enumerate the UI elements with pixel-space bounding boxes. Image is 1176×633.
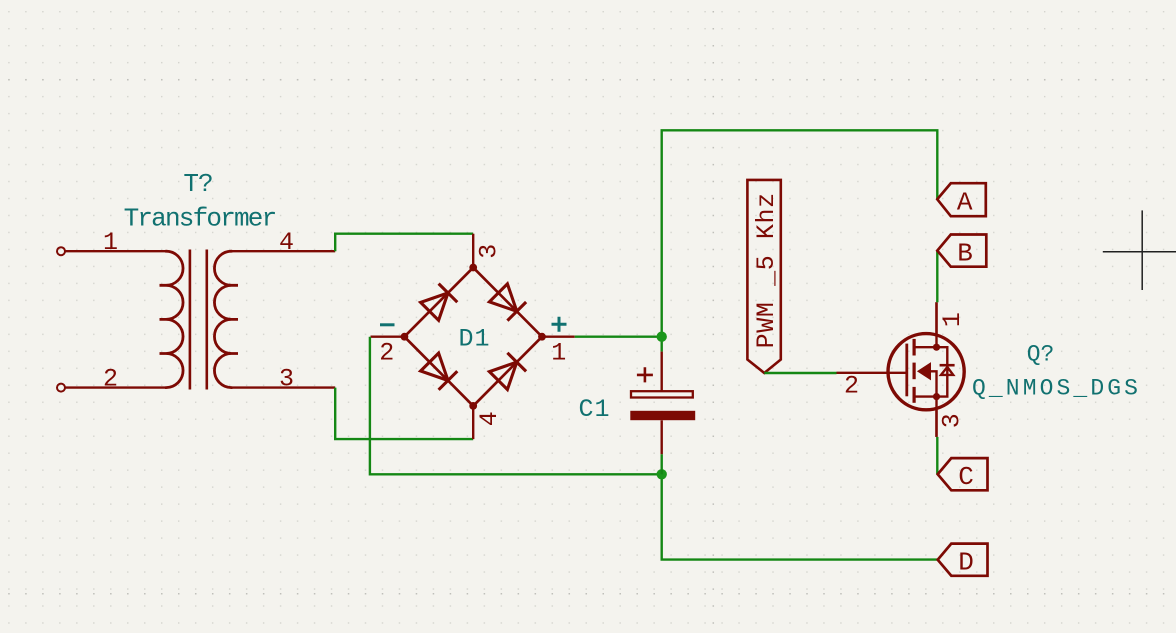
mosfet Q? body diode path — [937, 347, 948, 396]
global label PWM _5 Khz text — [752, 192, 781, 348]
svg-text:D: D — [958, 548, 974, 578]
capacitor C1 bottom plate — [630, 411, 695, 420]
svg-text:3: 3 — [279, 365, 294, 394]
bridge pin 1 stub right — [542, 336, 575, 338]
mosfet Q? drain connection — [914, 302, 936, 347]
svg-text:3: 3 — [937, 413, 966, 428]
mosfet Q? source dot — [933, 393, 940, 400]
svg-text:PWM _5 Khz: PWM _5 Khz — [752, 192, 781, 348]
svg-text:C1: C1 — [578, 395, 610, 424]
transformer T? primary winding — [160, 251, 184, 387]
svg-text:1: 1 — [103, 228, 118, 257]
mosfet Q? gate pin line — [837, 372, 906, 374]
svg-text:2: 2 — [103, 365, 118, 394]
svg-text:Transformer: Transformer — [124, 204, 276, 234]
svg-text:T?: T? — [183, 169, 212, 199]
mosfet drain pin line — [935, 302, 937, 333]
transformer core — [190, 250, 207, 390]
mosfet Q? channel bar bottom — [912, 387, 915, 403]
wire source to label C — [936, 437, 938, 474]
wire bridge pin2 to minus rail — [370, 337, 662, 475]
bridge plus sign — [552, 317, 567, 332]
bridge D1 junction dot top — [469, 264, 477, 272]
cursor crosshair — [1103, 210, 1176, 290]
bridge D1 diode bottom-right — [489, 353, 526, 390]
bridge pin number 4 — [475, 411, 504, 426]
bridge pin 4 stub bottom — [472, 406, 474, 439]
svg-text:4: 4 — [475, 411, 504, 426]
wire plus rail up — [662, 130, 938, 336]
capacitor plus sign — [637, 367, 653, 382]
svg-text:C: C — [958, 462, 974, 492]
wire cap top lead green — [661, 337, 663, 352]
mosfet pin number 1 — [938, 312, 967, 327]
transformer pin 1 open circle — [57, 247, 65, 255]
bridge pin number 3 — [474, 244, 503, 259]
bridge pin 2 stub left — [371, 336, 405, 338]
svg-text:A: A — [957, 188, 973, 218]
bridge D1 junction dot left — [401, 333, 409, 341]
global label PWM _5 Khz outline — [747, 180, 780, 373]
transformer pin 2 line — [65, 386, 166, 388]
transformer pin 2 open circle — [57, 384, 65, 392]
svg-text:Q_NMOS_DGS: Q_NMOS_DGS — [972, 376, 1141, 402]
capacitor C1 lead green below — [661, 454, 663, 474]
bridge D1 diode bottom-left — [421, 353, 458, 390]
svg-text:1: 1 — [551, 339, 566, 368]
svg-text:Q?: Q? — [1027, 342, 1055, 368]
bridge D1 junction dot right — [538, 333, 546, 341]
mosfet Q? substrate arrow — [918, 363, 931, 380]
svg-text:3: 3 — [474, 244, 503, 259]
mosfet Q? gate bar — [905, 344, 908, 397]
bridge D1 edges — [404, 268, 542, 406]
capacitor C1 top lead — [661, 352, 663, 391]
svg-text:4: 4 — [279, 228, 294, 257]
svg-text:2: 2 — [844, 372, 859, 401]
hierarchical label D — [938, 544, 988, 576]
mosfet Q? source connection — [914, 397, 936, 437]
transformer pin 3 line — [232, 386, 336, 388]
hierarchical label C — [938, 458, 988, 490]
mosfet Q? drain dot — [933, 344, 940, 351]
bridge D1 diode top-left — [421, 284, 458, 321]
wire label B to drain — [936, 250, 938, 302]
bridge D1 junction dot bottom — [469, 402, 477, 410]
bridge minus sign — [380, 323, 395, 326]
bridge D1 diode top-right — [489, 284, 526, 321]
mosfet source pin line — [935, 410, 937, 437]
svg-text:D1: D1 — [458, 325, 490, 354]
wire pin3 to bridge pin4 — [335, 388, 473, 440]
transformer pin 4 line — [232, 250, 336, 252]
grid axis dotted column — [712, 11, 714, 633]
mosfet Q? body diode cathode bar — [940, 364, 955, 367]
mosfet Q? substrate line — [931, 371, 937, 396]
transformer pin 1 line — [65, 250, 166, 252]
transformer T? secondary winding — [214, 251, 238, 387]
mosfet pin number 3 — [937, 413, 966, 428]
svg-text:1: 1 — [938, 312, 967, 327]
wire pin4 to bridge pin3 — [335, 234, 473, 252]
wire PWM to gate — [764, 372, 836, 374]
wire cap bottom to D label — [662, 474, 938, 559]
junction dot cap bottom — [657, 469, 667, 479]
capacitor C1 top plate — [631, 391, 693, 397]
grid axis dotted row top — [8, 79, 1176, 81]
svg-text:2: 2 — [379, 339, 394, 368]
hierarchical label A — [937, 183, 986, 216]
capacitor C1 bottom lead — [661, 420, 663, 454]
mosfet Q? channel bar top — [912, 339, 915, 356]
hierarchical label B — [937, 235, 986, 267]
mosfet Q? channel bar middle — [912, 363, 915, 380]
wire bridge pin1 to cap node — [575, 336, 662, 338]
mosfet Q? body circle — [888, 334, 964, 410]
grid axis dotted row bottom — [8, 593, 1176, 595]
svg-text:B: B — [957, 239, 973, 269]
mosfet Q? body diode triangle — [941, 367, 953, 375]
junction dot cap top — [657, 332, 667, 342]
bridge pin 3 stub top — [472, 234, 474, 268]
